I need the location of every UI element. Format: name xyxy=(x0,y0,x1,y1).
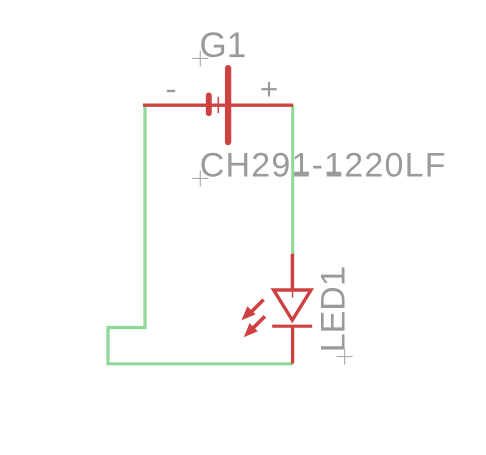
battery minus polarity label xyxy=(167,90,175,92)
battery G1 positive long plate xyxy=(225,68,231,142)
battery G1 thin center line xyxy=(217,97,219,113)
LED1 cathode lead xyxy=(291,326,294,363)
LED1 light arrow lower xyxy=(244,316,265,337)
battery G1 negative short plate xyxy=(206,95,212,113)
LED1 triangle xyxy=(274,290,311,320)
svg-text:CH291-1220LF: CH291-1220LF xyxy=(200,146,447,184)
svg-text:G1: G1 xyxy=(200,26,247,65)
LED1 anode lead xyxy=(291,254,295,290)
origin cross for LED1 xyxy=(337,349,353,365)
wire: right vertical from battery plus to LED anode xyxy=(291,105,294,255)
wire: left vertical from battery minus down xyxy=(108,104,293,364)
origin cross for value label xyxy=(192,170,208,186)
LED1 light arrow upper xyxy=(242,300,264,321)
LED1 thin center tick xyxy=(292,291,294,298)
LED1 cathode bar xyxy=(272,325,312,328)
LED1 "1" foot serif (rotated) xyxy=(342,267,345,281)
svg-text:LED1: LED1 xyxy=(314,267,352,352)
battery plus polarity label xyxy=(261,88,276,90)
origin cross for G1 xyxy=(192,50,208,66)
value label "1" foot serifs xyxy=(294,172,309,175)
battery G1 lead wire xyxy=(143,104,293,107)
G1 "1" foot serif xyxy=(231,55,245,58)
